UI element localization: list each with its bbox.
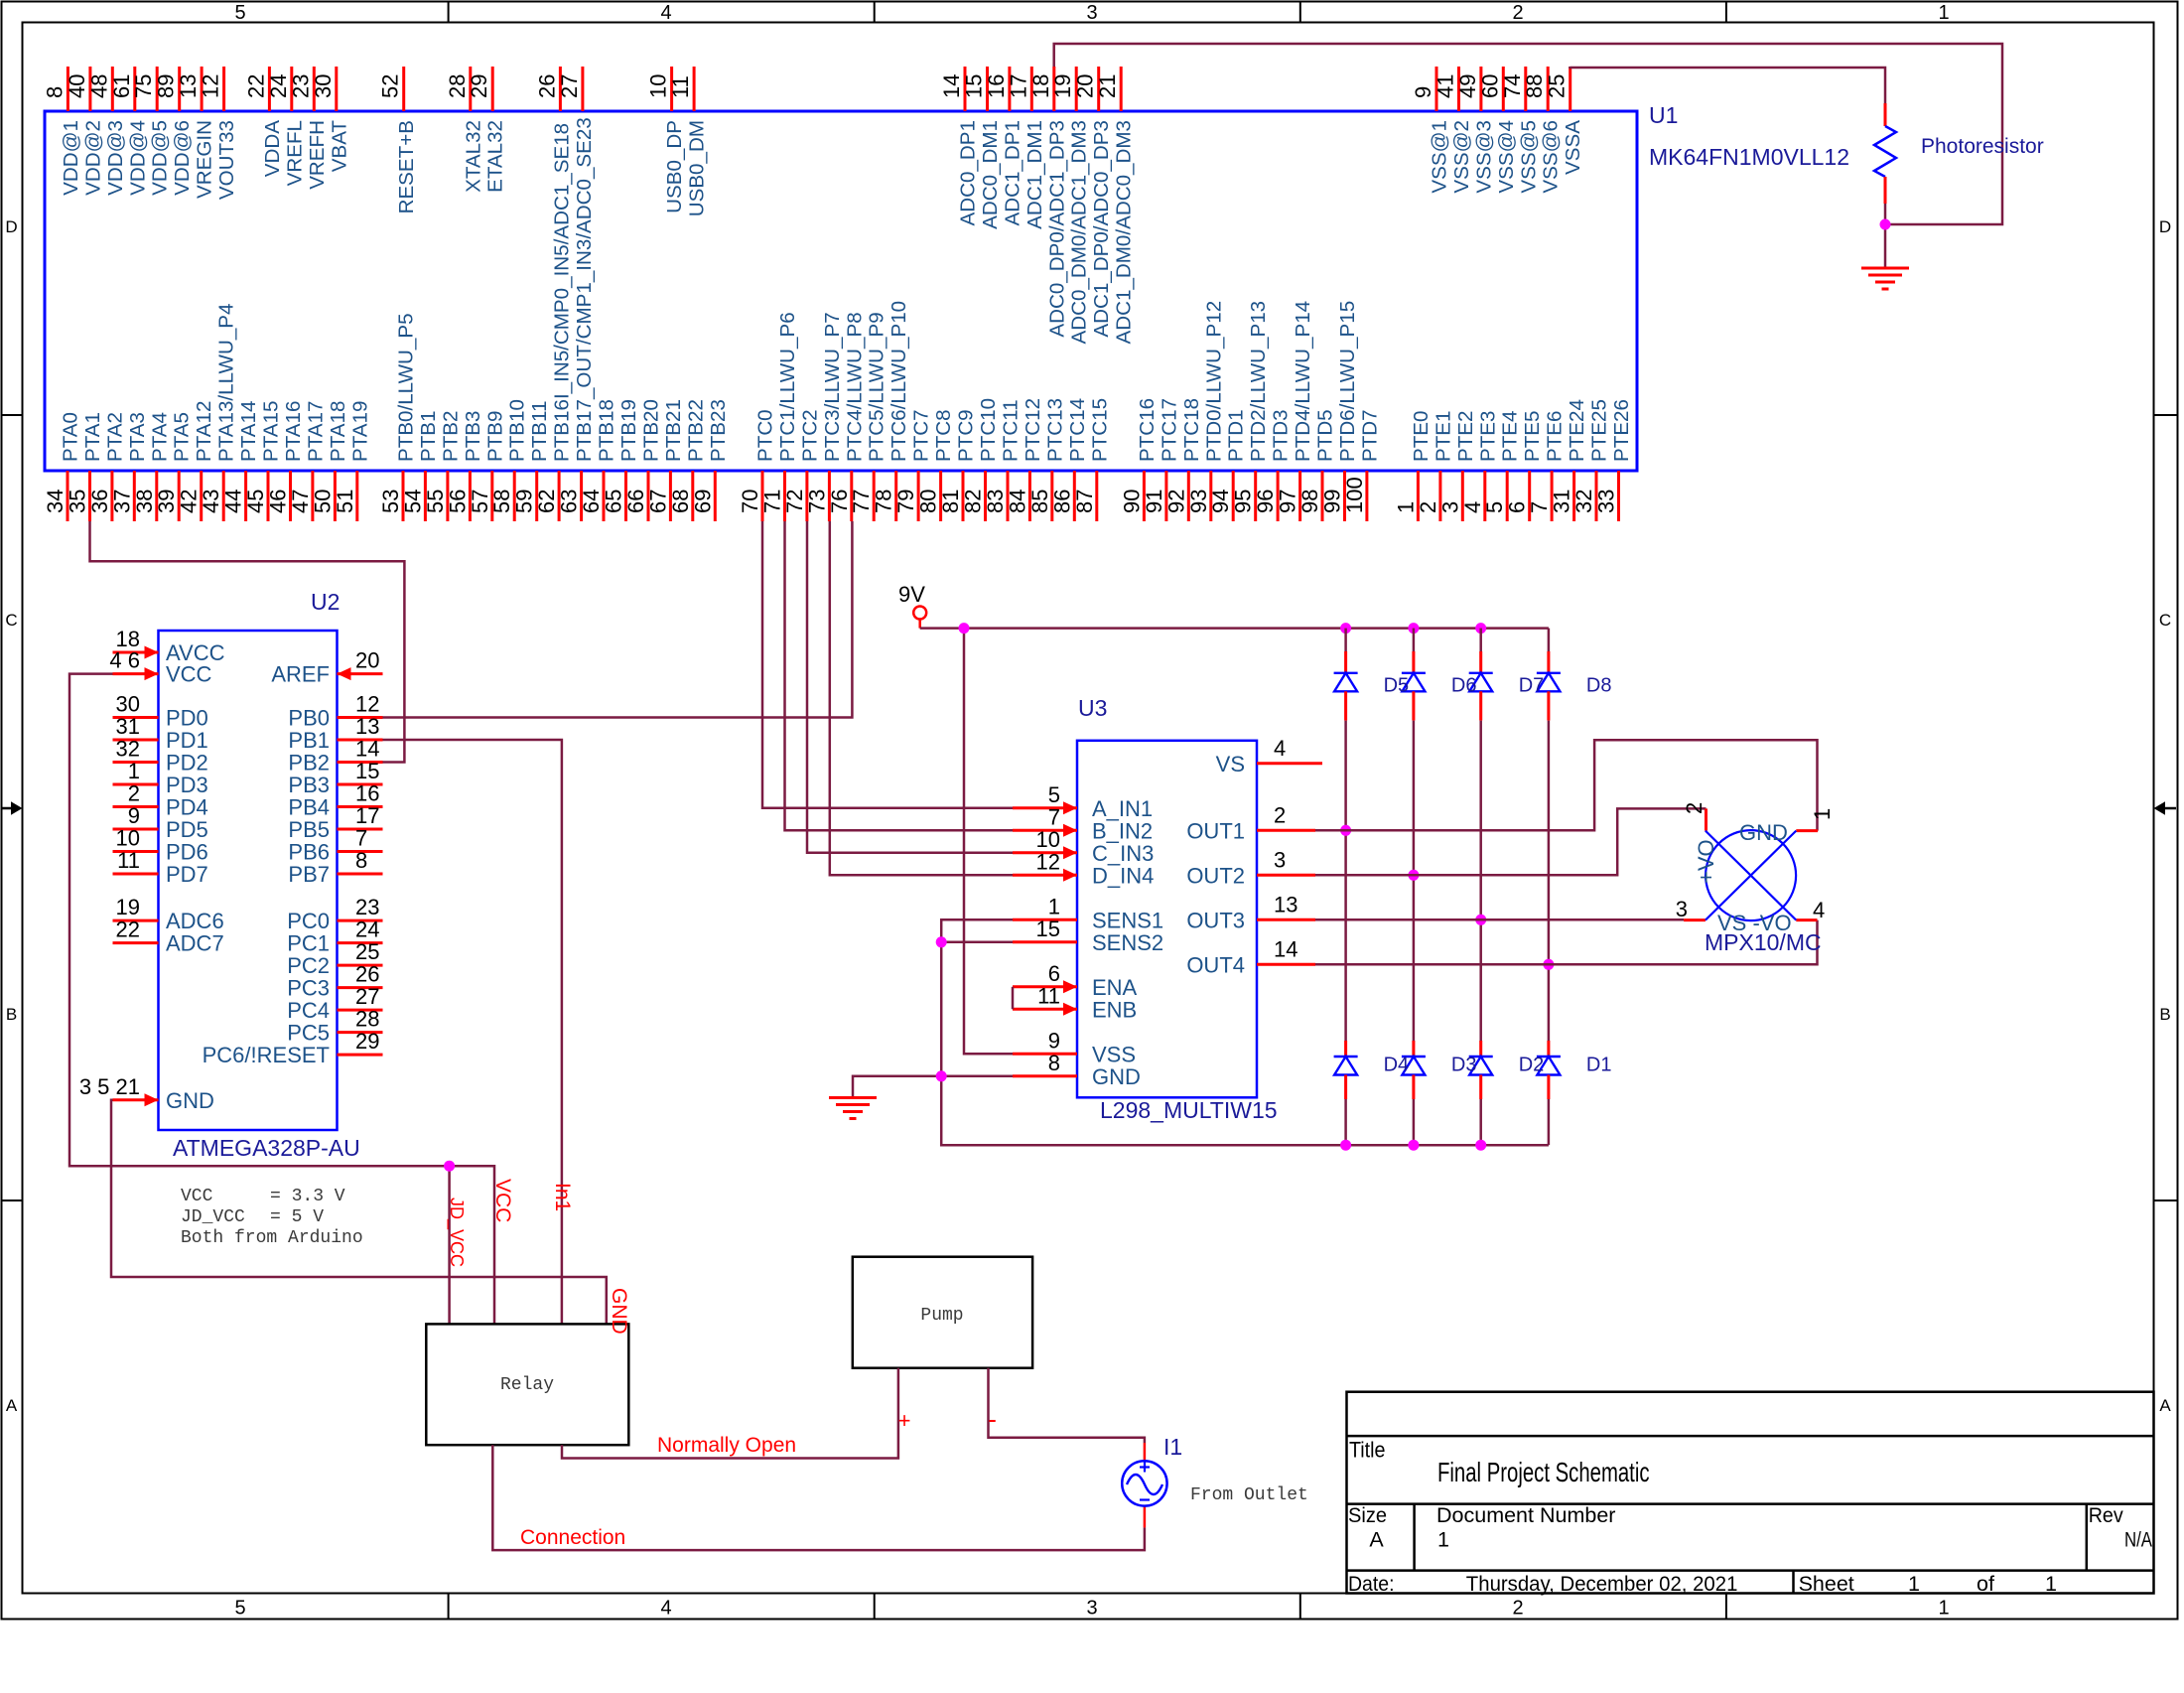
svg-text:A: A xyxy=(6,1396,18,1415)
svg-text:GND: GND xyxy=(1739,820,1788,845)
svg-text:2: 2 xyxy=(128,781,140,806)
svg-text:ADC7: ADC7 xyxy=(166,931,224,956)
svg-text:5: 5 xyxy=(1048,782,1060,807)
svg-text:8: 8 xyxy=(355,848,367,873)
svg-text:62: 62 xyxy=(534,490,559,513)
svg-text:RESET+B: RESET+B xyxy=(395,120,418,213)
svg-text:12: 12 xyxy=(199,74,223,98)
svg-text:15: 15 xyxy=(1036,917,1060,941)
svg-text:19: 19 xyxy=(116,895,140,919)
svg-text:Normally Open: Normally Open xyxy=(657,1434,796,1457)
svg-text:JD_VCC: JD_VCC xyxy=(181,1207,245,1227)
svg-text:26: 26 xyxy=(534,74,559,98)
svg-text:PC6/!RESET: PC6/!RESET xyxy=(203,1043,330,1067)
svg-text:D5: D5 xyxy=(1384,675,1410,697)
svg-text:ETAL32: ETAL32 xyxy=(484,120,507,193)
svg-text:VDD@4: VDD@4 xyxy=(126,120,149,196)
svg-text:PTA19: PTA19 xyxy=(348,401,371,462)
svg-text:GND: GND xyxy=(166,1088,214,1113)
svg-text:Document Number: Document Number xyxy=(1436,1503,1615,1527)
svg-text:PTC1/LLWU_P6: PTC1/LLWU_P6 xyxy=(776,312,799,462)
svg-text:PTC6/LLWU_P10: PTC6/LLWU_P10 xyxy=(887,301,910,462)
svg-text:3: 3 xyxy=(1676,897,1688,921)
svg-text:16: 16 xyxy=(355,781,379,806)
svg-text:PB5: PB5 xyxy=(288,817,330,842)
svg-text:PTA18: PTA18 xyxy=(327,401,349,462)
svg-text:PTE6: PTE6 xyxy=(1544,410,1567,462)
svg-text:PTA4: PTA4 xyxy=(148,412,171,462)
svg-text:PTB3: PTB3 xyxy=(462,410,484,462)
svg-text:PTB22: PTB22 xyxy=(684,399,707,462)
svg-text:5: 5 xyxy=(234,1598,245,1620)
svg-text:PC0: PC0 xyxy=(287,909,330,933)
svg-text:ADC0_DM0/ADC1_DM3: ADC0_DM0/ADC1_DM3 xyxy=(1068,120,1091,344)
svg-text:A: A xyxy=(1369,1528,1384,1552)
svg-text:47: 47 xyxy=(288,490,313,513)
svg-text:87: 87 xyxy=(1072,490,1097,513)
svg-text:PC1: PC1 xyxy=(287,931,330,956)
svg-text:1: 1 xyxy=(128,759,140,783)
svg-text:Size: Size xyxy=(1348,1503,1387,1527)
svg-text:VREFH: VREFH xyxy=(306,120,329,190)
svg-text:Connection: Connection xyxy=(520,1526,625,1549)
svg-text:PTC16: PTC16 xyxy=(1136,398,1159,462)
svg-text:PTB21: PTB21 xyxy=(662,399,685,462)
svg-text:D6: D6 xyxy=(1451,675,1477,697)
svg-text:78: 78 xyxy=(872,490,896,513)
svg-text:PTC8: PTC8 xyxy=(932,409,955,462)
svg-text:38: 38 xyxy=(132,490,157,513)
svg-text:PTC7: PTC7 xyxy=(910,409,933,462)
svg-text:PTE0: PTE0 xyxy=(1410,410,1433,462)
svg-text:VDD@3: VDD@3 xyxy=(104,120,127,196)
svg-text:PTB0/LLWU_P5: PTB0/LLWU_P5 xyxy=(395,313,418,462)
svg-text:PTD7: PTD7 xyxy=(1358,409,1381,462)
svg-text:PTE4: PTE4 xyxy=(1499,410,1522,462)
svg-text:100: 100 xyxy=(1342,477,1367,513)
svg-text:14: 14 xyxy=(1274,936,1297,961)
svg-text:PTB23: PTB23 xyxy=(707,399,730,462)
svg-text:91: 91 xyxy=(1142,490,1166,513)
svg-text:PTB18: PTB18 xyxy=(596,399,618,462)
svg-text:64: 64 xyxy=(579,490,604,513)
svg-text:28: 28 xyxy=(355,1007,379,1032)
svg-text:ADC6: ADC6 xyxy=(166,909,224,933)
svg-text:8: 8 xyxy=(1048,1051,1060,1075)
svg-text:PTA13/LLWU_P4: PTA13/LLWU_P4 xyxy=(215,304,238,462)
svg-text:6: 6 xyxy=(1505,501,1530,513)
svg-text:30: 30 xyxy=(311,74,336,98)
svg-text:VSS@3: VSS@3 xyxy=(1472,120,1495,194)
svg-text:PD0: PD0 xyxy=(166,706,208,731)
svg-text:4 6: 4 6 xyxy=(109,648,140,673)
svg-text:45: 45 xyxy=(243,490,268,513)
svg-text:73: 73 xyxy=(804,490,829,513)
svg-text:20: 20 xyxy=(1073,74,1098,98)
svg-text:35: 35 xyxy=(66,490,90,513)
svg-text:-: - xyxy=(988,1404,997,1434)
svg-text:ENA: ENA xyxy=(1092,975,1138,1000)
svg-text:17: 17 xyxy=(1006,74,1030,98)
svg-text:60: 60 xyxy=(1477,74,1502,98)
svg-text:71: 71 xyxy=(760,490,785,513)
svg-text:23: 23 xyxy=(288,74,313,98)
svg-text:Thursday, December 02, 2021: Thursday, December 02, 2021 xyxy=(1466,1572,1738,1596)
svg-text:USB0_DM: USB0_DM xyxy=(686,120,709,216)
svg-text:12: 12 xyxy=(355,692,379,717)
svg-text:VDD@5: VDD@5 xyxy=(149,120,172,196)
svg-text:PTB19: PTB19 xyxy=(617,399,640,462)
svg-text:PTB2: PTB2 xyxy=(439,410,462,462)
svg-text:56: 56 xyxy=(445,490,470,513)
svg-text:VDDA: VDDA xyxy=(261,120,284,177)
svg-text:96: 96 xyxy=(1253,490,1278,513)
svg-text:PTC4/LLWU_P8: PTC4/LLWU_P8 xyxy=(843,312,866,462)
svg-text:SENS2: SENS2 xyxy=(1092,930,1163,955)
svg-text:2: 2 xyxy=(1512,2,1523,24)
svg-text:PTC0: PTC0 xyxy=(754,409,777,462)
svg-text:11: 11 xyxy=(117,848,140,873)
svg-text:PTD1: PTD1 xyxy=(1225,409,1248,462)
svg-text:Pump: Pump xyxy=(920,1306,963,1326)
svg-text:16: 16 xyxy=(984,74,1009,98)
svg-text:32: 32 xyxy=(116,737,140,762)
svg-text:80: 80 xyxy=(916,490,941,513)
svg-text:MPX10/MC: MPX10/MC xyxy=(1705,929,1822,955)
svg-text:4: 4 xyxy=(660,2,671,24)
svg-text:PTD3: PTD3 xyxy=(1270,409,1293,462)
svg-text:PTC12: PTC12 xyxy=(1022,398,1044,462)
svg-text:63: 63 xyxy=(557,490,582,513)
svg-text:ADC1_DP0/ADC0_DP3: ADC1_DP0/ADC0_DP3 xyxy=(1090,120,1113,338)
svg-text:17: 17 xyxy=(355,803,379,828)
svg-text:31: 31 xyxy=(1550,490,1574,513)
svg-text:D_IN4: D_IN4 xyxy=(1092,863,1154,888)
svg-text:AREF: AREF xyxy=(271,662,330,687)
svg-text:= 3.3 V: = 3.3 V xyxy=(270,1187,345,1206)
svg-text:18: 18 xyxy=(1028,74,1053,98)
svg-text:PTB16I_IN5/CMP0_IN5/ADC1_SE18: PTB16I_IN5/CMP0_IN5/ADC1_SE18 xyxy=(551,123,574,462)
svg-text:PTB9: PTB9 xyxy=(483,410,506,462)
svg-text:2: 2 xyxy=(1416,501,1440,513)
svg-text:97: 97 xyxy=(1276,490,1300,513)
svg-text:C: C xyxy=(2159,611,2171,630)
svg-text:U2: U2 xyxy=(311,589,340,615)
svg-text:5: 5 xyxy=(234,2,245,24)
svg-text:VSS@2: VSS@2 xyxy=(1450,120,1473,194)
svg-text:PTB17_OUT/CMP1_IN3/ADC0_SE23: PTB17_OUT/CMP1_IN3/ADC0_SE23 xyxy=(573,117,596,462)
svg-text:OUT3: OUT3 xyxy=(1186,908,1245,932)
svg-text:75: 75 xyxy=(131,74,156,98)
svg-text:I1: I1 xyxy=(1163,1434,1182,1460)
svg-text:81: 81 xyxy=(938,490,963,513)
svg-text:VDD@6: VDD@6 xyxy=(171,120,194,196)
svg-text:26: 26 xyxy=(355,962,379,987)
svg-text:PTC2: PTC2 xyxy=(798,409,821,462)
svg-text:29: 29 xyxy=(355,1029,379,1054)
svg-text:OUT2: OUT2 xyxy=(1186,863,1245,888)
svg-text:76: 76 xyxy=(827,490,852,513)
svg-text:11: 11 xyxy=(1037,983,1060,1008)
svg-text:9V: 9V xyxy=(898,582,925,607)
svg-text:9: 9 xyxy=(1411,86,1435,98)
svg-text:4: 4 xyxy=(1274,736,1286,761)
svg-text:3: 3 xyxy=(1274,847,1286,872)
svg-text:PB2: PB2 xyxy=(288,751,330,776)
svg-text:In1: In1 xyxy=(551,1183,574,1211)
svg-text:D8: D8 xyxy=(1586,675,1612,697)
svg-text:XTAL32: XTAL32 xyxy=(462,120,484,193)
svg-text:B: B xyxy=(6,1005,17,1024)
svg-text:22: 22 xyxy=(243,74,268,98)
svg-text:+: + xyxy=(898,1408,911,1433)
svg-text:PTC13: PTC13 xyxy=(1043,398,1066,462)
svg-text:95: 95 xyxy=(1231,490,1256,513)
svg-text:2: 2 xyxy=(1512,1598,1523,1620)
svg-text:= 5 V: = 5 V xyxy=(270,1207,324,1227)
svg-text:VSS@5: VSS@5 xyxy=(1517,120,1540,194)
svg-text:40: 40 xyxy=(65,74,89,98)
svg-text:PTE2: PTE2 xyxy=(1454,410,1477,462)
svg-text:ADC1_DM0/ADC0_DM3: ADC1_DM0/ADC0_DM3 xyxy=(1113,120,1136,344)
svg-text:JD_VCC: JD_VCC xyxy=(446,1198,467,1267)
svg-text:94: 94 xyxy=(1208,490,1233,513)
svg-text:33: 33 xyxy=(1594,490,1619,513)
svg-text:PTB11: PTB11 xyxy=(528,401,551,462)
svg-text:PC3: PC3 xyxy=(287,976,330,1001)
svg-text:N/A: N/A xyxy=(2124,1528,2153,1552)
svg-text:PTC11: PTC11 xyxy=(1000,399,1023,462)
svg-text:72: 72 xyxy=(782,490,807,513)
svg-text:66: 66 xyxy=(623,490,648,513)
svg-text:59: 59 xyxy=(512,490,537,513)
svg-text:65: 65 xyxy=(602,490,626,513)
svg-text:VOUT33: VOUT33 xyxy=(215,120,238,200)
svg-text:PB0: PB0 xyxy=(288,706,330,731)
svg-text:37: 37 xyxy=(109,490,134,513)
svg-text:VCC: VCC xyxy=(166,662,212,687)
svg-text:7: 7 xyxy=(1527,501,1552,513)
svg-text:5: 5 xyxy=(1482,501,1507,513)
svg-text:1: 1 xyxy=(2045,1572,2057,1596)
svg-text:D3: D3 xyxy=(1451,1055,1477,1076)
svg-text:42: 42 xyxy=(177,490,202,513)
svg-text:From Outlet: From Outlet xyxy=(1190,1485,1308,1505)
svg-text:PTC5/LLWU_P9: PTC5/LLWU_P9 xyxy=(866,312,888,462)
svg-text:D1: D1 xyxy=(1586,1055,1612,1076)
svg-text:28: 28 xyxy=(445,74,470,98)
svg-text:27: 27 xyxy=(557,74,582,98)
svg-text:10: 10 xyxy=(116,826,140,851)
svg-text:10: 10 xyxy=(1036,827,1060,852)
svg-text:PTB20: PTB20 xyxy=(640,399,663,462)
svg-text:PTE1: PTE1 xyxy=(1432,410,1454,462)
svg-text:VSSA: VSSA xyxy=(1562,120,1584,175)
svg-text:of: of xyxy=(1977,1572,1994,1596)
svg-text:43: 43 xyxy=(199,490,223,513)
svg-text:46: 46 xyxy=(266,490,291,513)
svg-text:93: 93 xyxy=(1186,490,1211,513)
svg-text:PTA3: PTA3 xyxy=(126,412,149,462)
svg-text:3: 3 xyxy=(1086,2,1097,24)
svg-text:PC2: PC2 xyxy=(287,953,330,978)
svg-text:55: 55 xyxy=(423,490,448,513)
svg-text:29: 29 xyxy=(467,74,491,98)
svg-text:Final Project Schematic: Final Project Schematic xyxy=(1437,1457,1650,1487)
svg-text:PTC3/LLWU_P7: PTC3/LLWU_P7 xyxy=(821,312,844,462)
svg-text:23: 23 xyxy=(355,895,379,919)
svg-text:PTE3: PTE3 xyxy=(1476,410,1499,462)
svg-text:1: 1 xyxy=(1393,501,1418,513)
svg-text:C: C xyxy=(5,611,17,630)
svg-text:83: 83 xyxy=(983,490,1008,513)
svg-text:51: 51 xyxy=(333,490,357,513)
svg-text:PTD4/LLWU_P14: PTD4/LLWU_P14 xyxy=(1292,301,1314,462)
svg-text:32: 32 xyxy=(1571,490,1596,513)
svg-text:98: 98 xyxy=(1297,490,1322,513)
svg-text:MK64FN1M0VLL12: MK64FN1M0VLL12 xyxy=(1649,144,1849,170)
svg-text:PTE24: PTE24 xyxy=(1566,399,1588,462)
svg-text:PTC10: PTC10 xyxy=(977,398,1000,462)
svg-text:58: 58 xyxy=(489,490,514,513)
svg-text:PTC17: PTC17 xyxy=(1158,398,1180,462)
svg-text:1: 1 xyxy=(1908,1572,1920,1596)
svg-text:3 5 21: 3 5 21 xyxy=(79,1074,140,1099)
svg-text:PTE25: PTE25 xyxy=(1588,399,1611,462)
svg-text:70: 70 xyxy=(738,490,762,513)
svg-text:2: 2 xyxy=(1682,802,1706,814)
svg-text:PD2: PD2 xyxy=(166,751,208,776)
svg-text:34: 34 xyxy=(43,490,68,513)
svg-text:9: 9 xyxy=(1048,1028,1060,1053)
svg-text:13: 13 xyxy=(355,714,379,739)
svg-text:11: 11 xyxy=(668,75,693,98)
svg-text:4: 4 xyxy=(660,1598,671,1620)
svg-text:1: 1 xyxy=(1938,1598,1949,1620)
svg-text:D: D xyxy=(5,217,17,236)
svg-text:4: 4 xyxy=(1460,501,1485,513)
svg-text:ADC0_DP0/ADC1_DP3: ADC0_DP0/ADC1_DP3 xyxy=(1045,120,1068,338)
svg-text:A_IN1: A_IN1 xyxy=(1092,796,1153,821)
svg-text:89: 89 xyxy=(154,74,179,98)
svg-text:74: 74 xyxy=(1500,74,1525,98)
svg-text:OUT4: OUT4 xyxy=(1186,952,1245,977)
svg-text:B: B xyxy=(2159,1005,2170,1024)
svg-text:8: 8 xyxy=(42,86,67,98)
svg-text:PB7: PB7 xyxy=(288,862,330,887)
svg-text:PTA5: PTA5 xyxy=(171,412,194,462)
svg-text:PTE5: PTE5 xyxy=(1521,410,1544,462)
svg-text:68: 68 xyxy=(668,490,693,513)
svg-text:VDD@2: VDD@2 xyxy=(81,120,104,196)
svg-text:OUT1: OUT1 xyxy=(1186,818,1245,843)
svg-text:82: 82 xyxy=(961,490,986,513)
svg-text:92: 92 xyxy=(1163,490,1188,513)
svg-text:9: 9 xyxy=(128,803,140,828)
svg-text:85: 85 xyxy=(1027,490,1052,513)
svg-text:PTC9: PTC9 xyxy=(955,409,978,462)
svg-text:21: 21 xyxy=(1095,74,1120,98)
svg-text:69: 69 xyxy=(690,490,715,513)
svg-text:VSS@4: VSS@4 xyxy=(1495,120,1518,194)
svg-text:PB3: PB3 xyxy=(288,773,330,797)
svg-text:7: 7 xyxy=(1048,804,1060,829)
svg-text:86: 86 xyxy=(1049,490,1074,513)
svg-text:U1: U1 xyxy=(1649,102,1678,128)
svg-text:7: 7 xyxy=(355,826,367,851)
svg-text:L298_MULTIW15: L298_MULTIW15 xyxy=(1100,1097,1278,1123)
svg-text:USB0_DP: USB0_DP xyxy=(663,120,686,213)
svg-text:13: 13 xyxy=(176,74,201,98)
svg-text:VCC: VCC xyxy=(491,1179,514,1222)
svg-text:PTB1: PTB1 xyxy=(417,410,440,462)
svg-text:U3: U3 xyxy=(1078,695,1107,721)
svg-text:41: 41 xyxy=(1433,74,1458,98)
svg-text:14: 14 xyxy=(939,74,964,98)
svg-text:PD7: PD7 xyxy=(166,862,208,887)
svg-text:50: 50 xyxy=(310,490,335,513)
svg-text:77: 77 xyxy=(849,490,874,513)
svg-text:99: 99 xyxy=(1320,490,1345,513)
svg-text:27: 27 xyxy=(355,984,379,1009)
svg-text:PTD6/LLWU_P15: PTD6/LLWU_P15 xyxy=(1336,301,1359,462)
svg-text:PC5: PC5 xyxy=(287,1021,330,1046)
svg-text:VS: VS xyxy=(1216,752,1245,776)
svg-text:PTA16: PTA16 xyxy=(282,401,305,462)
svg-text:24: 24 xyxy=(355,917,379,942)
svg-text:PTC15: PTC15 xyxy=(1088,398,1111,462)
svg-text:52: 52 xyxy=(378,74,403,98)
svg-text:PTD5: PTD5 xyxy=(1314,409,1337,462)
svg-text:C_IN3: C_IN3 xyxy=(1092,841,1154,866)
svg-text:D7: D7 xyxy=(1519,675,1545,697)
svg-text:54: 54 xyxy=(400,490,425,513)
svg-text:PTA17: PTA17 xyxy=(304,401,327,462)
svg-text:PTA0: PTA0 xyxy=(60,412,82,462)
svg-text:2: 2 xyxy=(1274,802,1286,827)
svg-text:15: 15 xyxy=(355,759,379,783)
svg-text:GND: GND xyxy=(608,1288,630,1335)
svg-text:84: 84 xyxy=(1005,490,1029,513)
svg-text:ADC0_DP1: ADC0_DP1 xyxy=(957,120,980,225)
svg-text:PTA14: PTA14 xyxy=(237,401,260,462)
svg-text:PD1: PD1 xyxy=(166,728,208,753)
svg-text:+VO: +VO xyxy=(1694,839,1718,884)
svg-text:PB6: PB6 xyxy=(288,840,330,865)
svg-text:Date:: Date: xyxy=(1348,1572,1395,1596)
svg-text:PTA15: PTA15 xyxy=(260,401,283,462)
svg-text:PD6: PD6 xyxy=(166,840,208,865)
svg-text:1: 1 xyxy=(1048,894,1060,918)
svg-text:31: 31 xyxy=(116,714,140,739)
svg-text:D2: D2 xyxy=(1519,1055,1545,1076)
svg-text:1: 1 xyxy=(1810,808,1835,820)
svg-text:48: 48 xyxy=(86,74,111,98)
svg-text:PTB10: PTB10 xyxy=(506,399,529,462)
svg-text:88: 88 xyxy=(1522,74,1547,98)
svg-text:Photoresistor: Photoresistor xyxy=(1921,135,2044,158)
svg-text:4: 4 xyxy=(1813,898,1825,922)
svg-text:24: 24 xyxy=(266,74,291,98)
svg-text:36: 36 xyxy=(87,490,112,513)
svg-text:VREFL: VREFL xyxy=(283,120,306,186)
svg-text:VSS: VSS xyxy=(1092,1042,1136,1066)
svg-text:3: 3 xyxy=(1086,1598,1097,1620)
svg-text:49: 49 xyxy=(1455,74,1480,98)
svg-text:PTE26: PTE26 xyxy=(1610,399,1633,462)
svg-text:ADC1_DM1: ADC1_DM1 xyxy=(1024,120,1046,229)
svg-text:3: 3 xyxy=(1437,501,1462,513)
